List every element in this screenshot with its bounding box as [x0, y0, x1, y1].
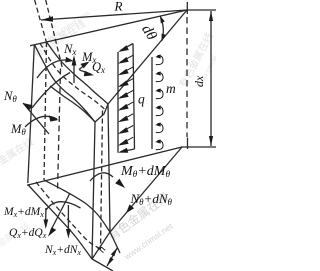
M-theta arc arrowhead — [49, 115, 59, 121]
dx dimension line — [210, 11, 212, 146]
R arrowhead — [41, 16, 53, 22]
right cut edge — [95, 104, 108, 122]
shell outer-left vertical edge — [28, 45, 35, 183]
radius line RL2 to top-right corner — [108, 10, 187, 104]
dx top arrowhead — [209, 11, 213, 21]
watermark tiles — [0, 10, 226, 178]
svg-text:Qx: Qx — [92, 60, 105, 75]
bottom face outer arc — [28, 185, 92, 260]
svg-text:Nx: Nx — [63, 42, 76, 57]
shell mid hidden vertical — [58, 69, 61, 192]
svg-text:有色金属在线: 有色金属在线 — [0, 135, 36, 179]
svg-text:dx: dx — [192, 75, 206, 87]
M-theta moment arc — [25, 116, 57, 127]
svg-text:Mx+dMx: Mx+dMx — [3, 206, 44, 219]
q strip bottom edge arrow — [121, 149, 135, 152]
svg-text:R: R — [114, 0, 123, 14]
h extension line 2 — [92, 259, 113, 271]
q strip left edge — [117, 52, 119, 153]
top face outer arc — [34, 45, 95, 123]
h dim arrowhead high — [111, 248, 118, 257]
N-x+dN-x arrowhead — [66, 229, 71, 239]
q strip top edge arrow — [121, 44, 134, 51]
dx bottom arrowhead — [209, 136, 213, 146]
axis dashed vertical — [186, 17, 188, 137]
svg-text:q: q — [138, 92, 145, 107]
Q-x arrow shaft — [80, 70, 92, 74]
M-x+dM-x arrowhead — [44, 219, 49, 229]
m moment curls — [155, 54, 163, 149]
M-x arrow shaft — [79, 63, 88, 70]
N-x arrowhead — [72, 55, 77, 66]
q load arrows — [118, 55, 133, 146]
bottom face mid dashed arc — [36, 182, 101, 249]
top face secondary front arc — [32, 73, 70, 109]
h extension line 1 — [110, 232, 120, 253]
d-theta arc arrowhead 2 — [162, 34, 166, 42]
bottom horizontal line — [182, 146, 216, 148]
top horizontal line from apex — [187, 9, 216, 11]
Q-x+dQ-x arrow shaft — [51, 193, 71, 231]
N-x+dN-x arrow shaft — [67, 205, 69, 230]
R dimension line — [41, 10, 187, 20]
N-theta arrowhead — [23, 103, 33, 111]
svg-text:h: h — [95, 244, 108, 255]
svg-text:Nx+dNx: Nx+dNx — [44, 244, 81, 257]
M-x moment arc arrowhead — [65, 57, 73, 63]
bottom cut edge — [92, 232, 110, 259]
svg-text:Mθ: Mθ — [10, 122, 26, 137]
top-left dashed line D1 — [46, 0, 63, 69]
N-x arrow shaft — [73, 58, 75, 83]
Q-x arrowhead — [84, 71, 94, 77]
svg-text:Qx+dQx: Qx+dQx — [9, 227, 47, 240]
M-x+dM-x arrow shaft — [45, 208, 47, 221]
apex tick — [186, 2, 188, 14]
top front arc — [50, 86, 95, 122]
q strip right edge — [133, 44, 135, 150]
radius line RL1 to top-left corner — [30, 10, 187, 46]
front silhouette vertical edge — [92, 122, 95, 259]
h dimension line — [107, 248, 118, 267]
svg-text:Nθ: Nθ — [3, 89, 17, 104]
M-x moment arc on top face — [37, 60, 70, 78]
Q-x+dQ-x arrowhead — [48, 227, 56, 236]
bottom radius line BL2 — [110, 147, 182, 232]
d-theta arc — [160, 17, 163, 41]
N-theta+dN-theta arrowhead on BL2 — [126, 204, 134, 213]
M-theta+dM-theta arc arrowhead — [115, 179, 125, 188]
svg-text:Mθ+dMθ: Mθ+dMθ — [120, 164, 170, 180]
h dim arrowhead low — [107, 257, 114, 266]
svg-text:Nθ+dNθ: Nθ+dNθ — [130, 191, 173, 207]
svg-text:dθ: dθ — [138, 22, 160, 44]
top-left dashed line D2 — [35, 0, 47, 44]
q top edge arrowhead — [118, 45, 129, 52]
M-x arrowhead — [80, 62, 89, 69]
N-theta arrow shaft — [23, 103, 49, 134]
shell mid-right hidden vertical — [101, 111, 103, 250]
M-theta+dM-theta moment arc — [90, 173, 113, 181]
shell inner-left hidden edge — [44, 42, 47, 180]
top face inner arc — [47, 42, 109, 104]
m line — [151, 57, 153, 149]
top face mid dashed arc — [40, 43, 106, 110]
bottom face inner arc — [44, 180, 110, 232]
bottom radius line BL1 — [27, 147, 182, 185]
svg-text:m: m — [166, 81, 176, 96]
M-x+dM-x moment arc on bottom face — [46, 202, 81, 210]
bottom apex tick — [187, 138, 189, 150]
shell inner-right vertical edge — [108, 104, 110, 232]
q bottom edge arrowhead — [118, 148, 128, 153]
d-theta arc arrowhead 1 — [160, 16, 165, 24]
